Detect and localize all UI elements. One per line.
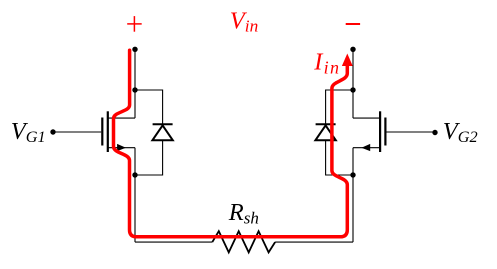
node dot top left (+ terminal) bbox=[132, 47, 137, 52]
wire bottom rail right segment bbox=[275, 241, 353, 243]
node dot V_G1 terminal bbox=[50, 129, 55, 134]
svg-text:Iin: Iin bbox=[313, 48, 340, 77]
wire right diode branch top bbox=[326, 90, 353, 124]
wire right diode branch bottom bbox=[326, 140, 353, 175]
wire right drain jog bbox=[353, 117, 381, 119]
wire left gate lead bbox=[53, 131, 101, 133]
wire left diode branch bottom bbox=[135, 140, 163, 175]
node dot right junction top bbox=[350, 87, 355, 92]
wire right main vertical (source side) bbox=[352, 148, 354, 242]
svg-text:Rsh: Rsh bbox=[228, 199, 259, 228]
node dot left junction bottom bbox=[132, 172, 137, 177]
transistor Q1 source arrow bbox=[117, 144, 126, 151]
transistor Q2 source arrow bbox=[361, 144, 370, 151]
wire bottom rail left segment bbox=[135, 241, 212, 243]
node dot left junction top bbox=[132, 87, 137, 92]
wire right gate lead bbox=[387, 131, 436, 133]
resistor R_sh zigzag bbox=[212, 231, 275, 252]
transistor Q2 gate bar bbox=[384, 118, 386, 146]
wire left source jog bbox=[107, 147, 135, 149]
transistor Q1 channel bar bbox=[107, 111, 109, 152]
red arrowhead of I_in bbox=[342, 54, 353, 67]
wire left main vertical (drain side) bbox=[134, 49, 136, 118]
wire right source jog bbox=[353, 147, 381, 149]
wire left diode branch top bbox=[135, 90, 163, 124]
node dot top right (- terminal) bbox=[350, 47, 355, 52]
svg-text:VG1: VG1 bbox=[11, 118, 46, 146]
svg-text:VG2: VG2 bbox=[443, 118, 478, 146]
wire left drain jog bbox=[107, 117, 135, 119]
red current path I_in bbox=[114, 50, 348, 237]
transistor Q1 gate bar bbox=[101, 118, 103, 146]
wire right main vertical (drain side) bbox=[352, 49, 354, 118]
diode D2 (body diode of Q2) bbox=[315, 124, 335, 140]
node dot right junction bottom bbox=[350, 172, 355, 177]
label - (minus) bbox=[346, 23, 360, 25]
node dot V_G2 terminal bbox=[432, 130, 437, 135]
wire left main vertical (source side) bbox=[134, 148, 136, 242]
diode D1 (body diode of Q1) bbox=[152, 124, 172, 140]
label + (plus) bbox=[127, 16, 142, 32]
transistor Q2 channel bar bbox=[379, 111, 381, 152]
svg-text:Vin: Vin bbox=[230, 8, 258, 36]
